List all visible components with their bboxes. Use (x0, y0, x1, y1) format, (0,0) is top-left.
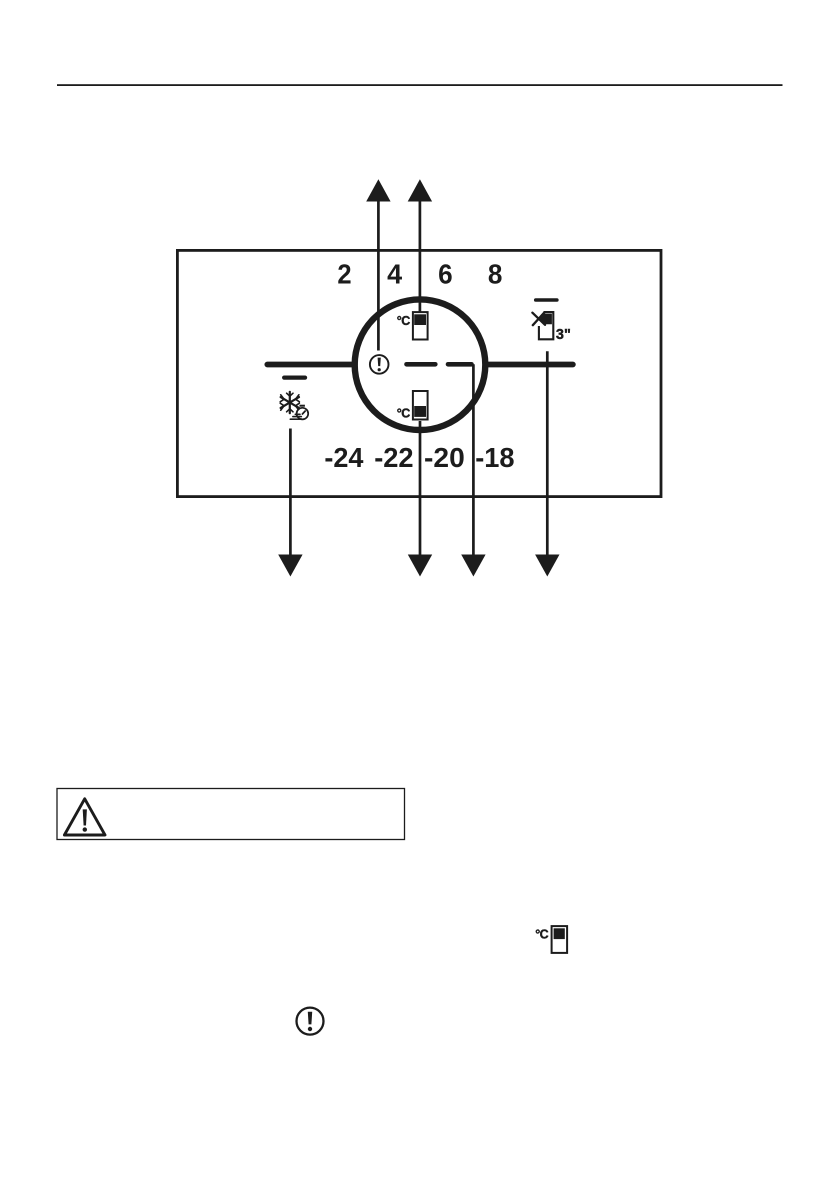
svg-text:°C: °C (535, 928, 548, 942)
left short dash (fastfreeze marker) (284, 375, 305, 379)
svg-text:-24: -24 (324, 442, 364, 473)
svg-text:-22: -22 (374, 442, 413, 473)
svg-text:-18: -18 (475, 442, 514, 473)
fridge temperature icon (top, square up) (397, 312, 428, 339)
inline alarm icon (! in circle) (297, 1008, 324, 1035)
warning triangle (64, 799, 105, 835)
down arrow B head (408, 555, 432, 577)
up arrow 2 (fridge temp) shaft (419, 201, 422, 312)
up arrow 1 head (366, 179, 390, 201)
door alarm icon (crossed door + 3") (532, 312, 570, 343)
down arrow D head (535, 555, 559, 577)
up arrow 1 (alarm) shaft (377, 201, 380, 351)
wire from knob dash to arrow C (448, 364, 473, 556)
svg-text:6: 6 (438, 259, 453, 290)
right short dash (door alarm marker) (536, 298, 557, 302)
freezer temperature icon (bottom, square down) (397, 391, 428, 421)
right pointer line (wing) (486, 362, 573, 368)
svg-text:-20: -20 (424, 442, 465, 473)
warning note box (57, 789, 405, 840)
down arrow A head (278, 555, 302, 577)
knob centre dash (407, 362, 436, 367)
down arrow C head (461, 555, 485, 577)
alarm indicator icon (! in circle) (370, 355, 389, 374)
top horizontal rule (57, 84, 783, 86)
down arrow D (door alarm) shaft (546, 351, 549, 556)
down arrow B (freezer temp) shaft (419, 421, 422, 556)
down arrow A (fastfreeze) shaft (289, 429, 292, 557)
svg-text:°C: °C (397, 314, 410, 328)
fridge setting scale labels 2 4 6 8 (337, 259, 502, 290)
freezer setting scale labels -24 -22 -20 -18 (324, 442, 514, 473)
left pointer line (wing) (267, 362, 355, 368)
svg-text:3": 3" (556, 327, 571, 343)
svg-text:4: 4 (387, 259, 402, 290)
svg-text:8: 8 (488, 259, 503, 290)
inline fridge temperature icon (535, 926, 567, 953)
svg-text:°C: °C (397, 407, 410, 421)
control panel frame (177, 250, 661, 496)
up arrow 2 head (408, 179, 432, 201)
fastfreeze icon (snowflake + stopwatch) (280, 392, 308, 420)
svg-text:2: 2 (337, 259, 351, 290)
control knob circle (355, 299, 486, 430)
